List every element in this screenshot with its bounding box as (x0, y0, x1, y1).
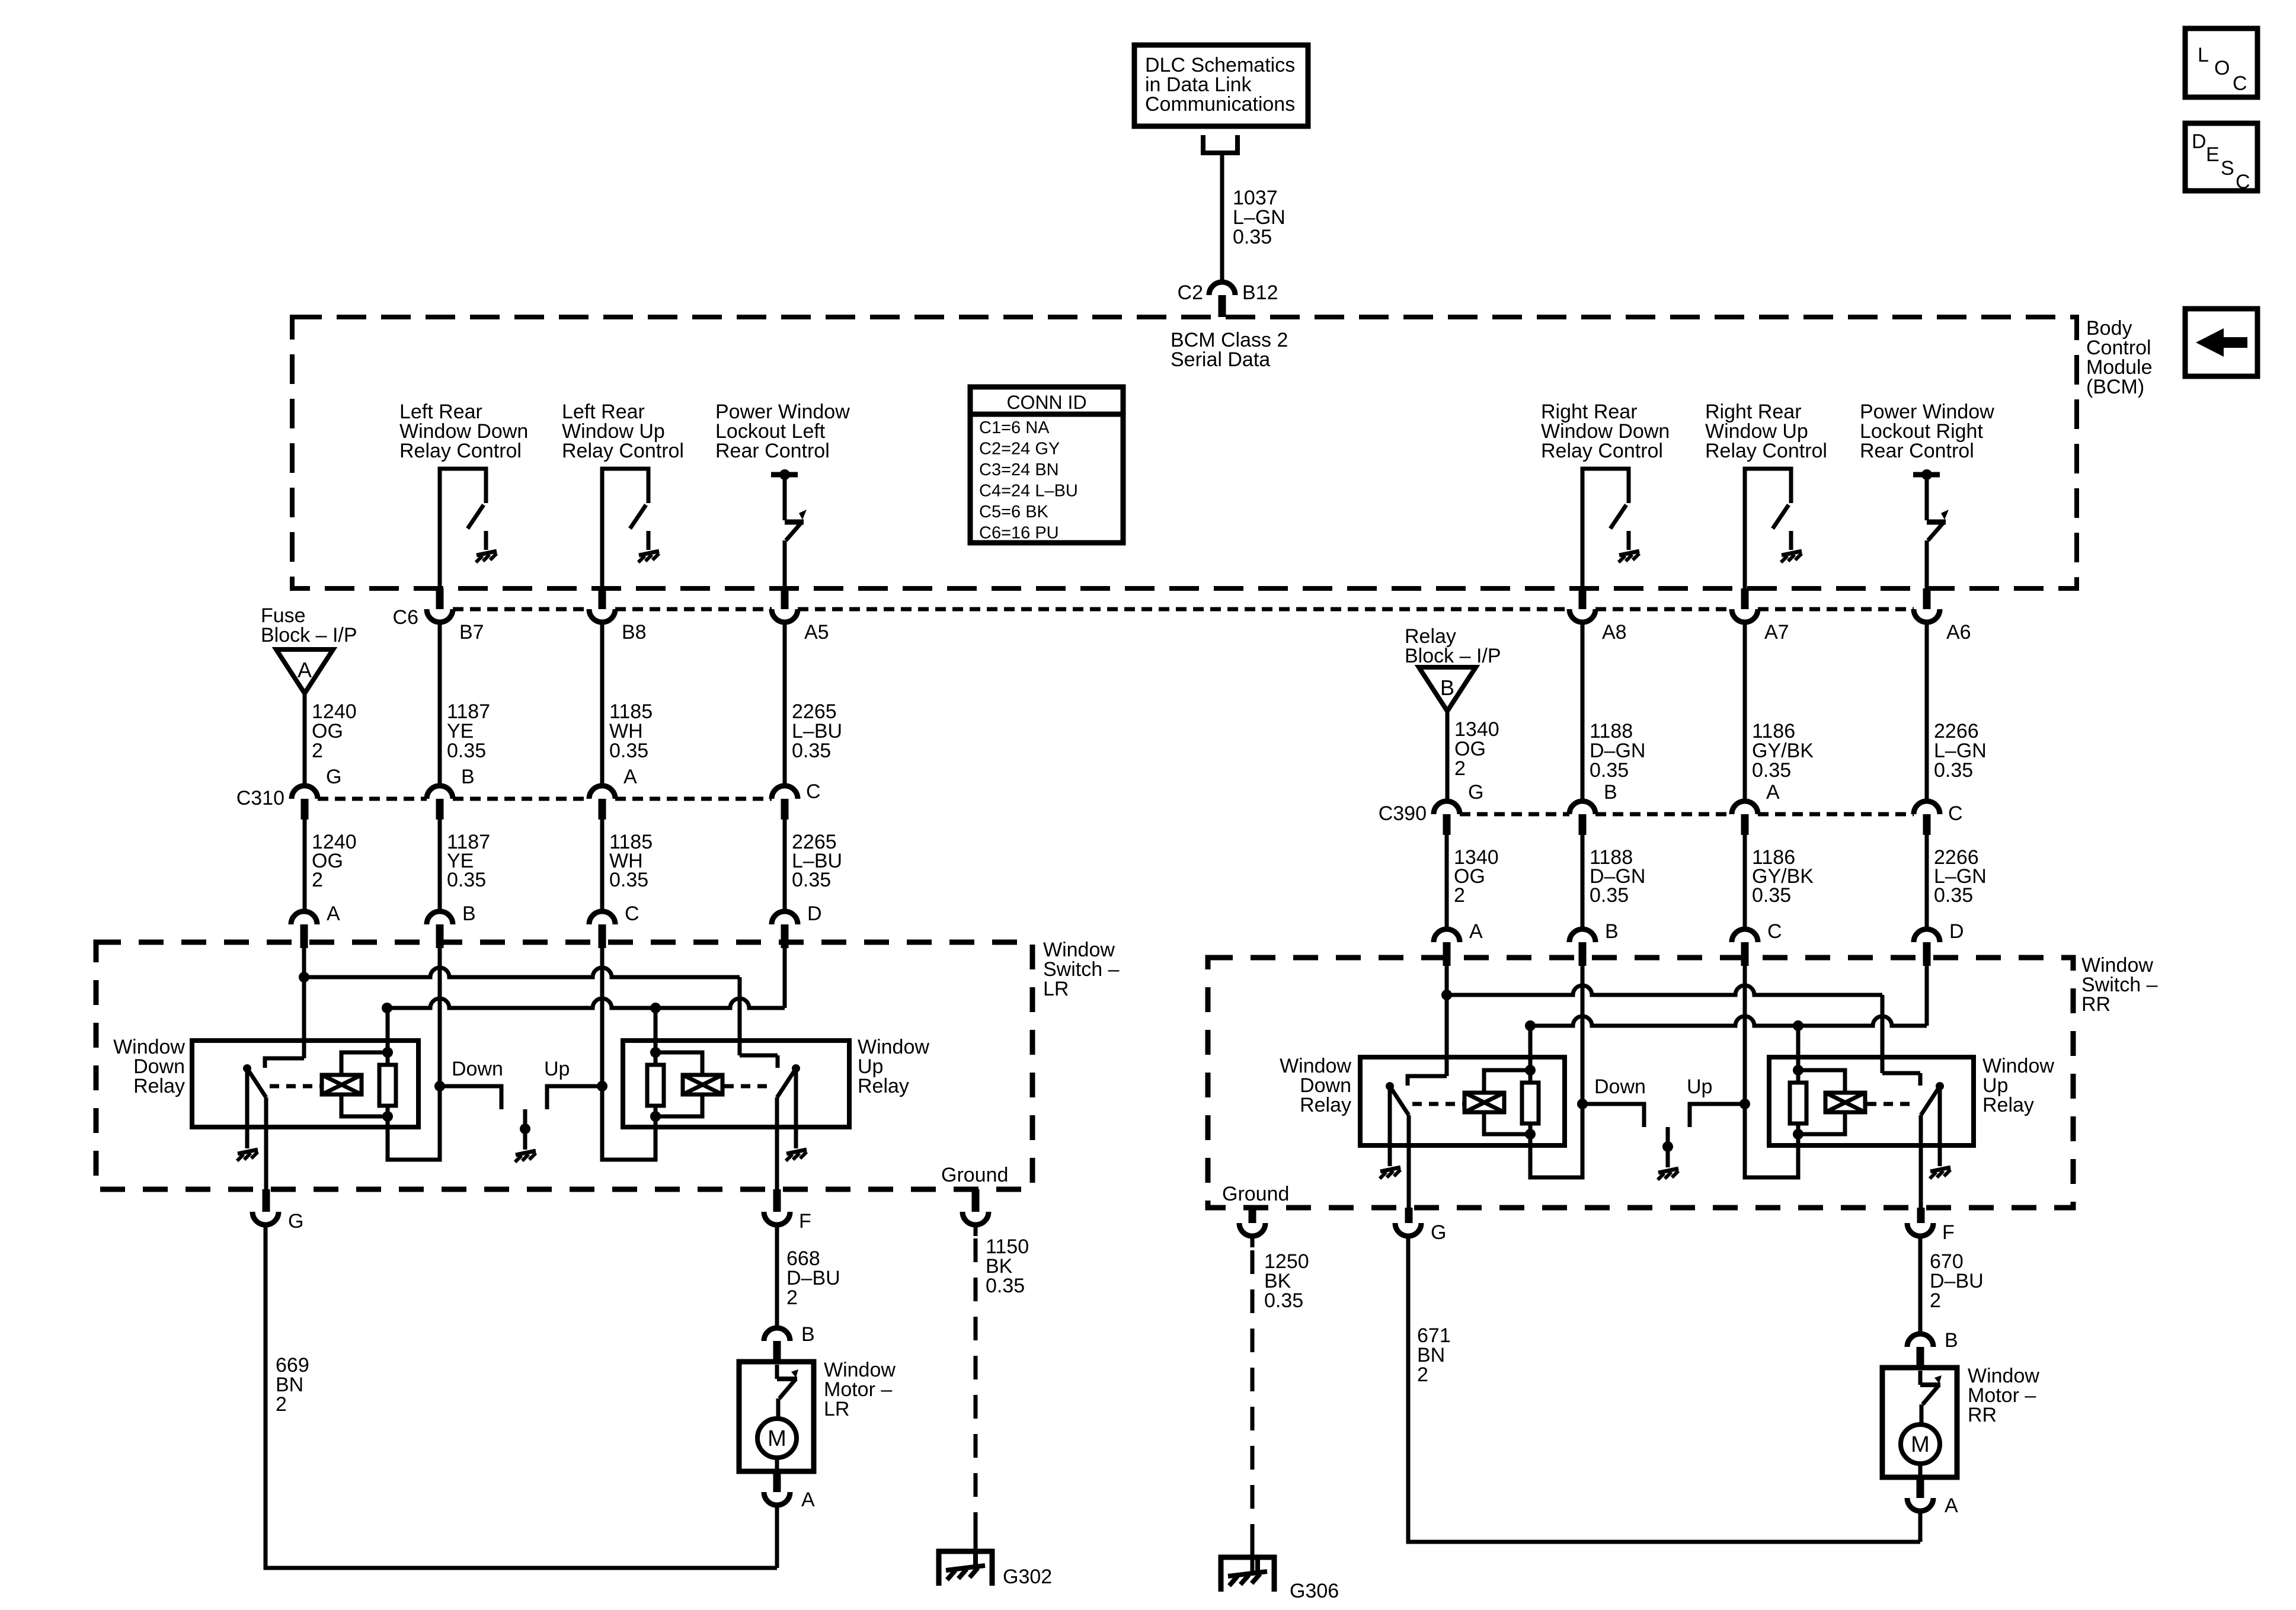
wire D column into LR switch (783, 948, 787, 1008)
svg-text:0.35: 0.35 (609, 740, 648, 762)
down relay coil return to B (RR) (1530, 1104, 1582, 1177)
svg-text:LR: LR (824, 1398, 849, 1420)
fuse block triangle A (276, 649, 333, 693)
Up switch contact (RR) (1690, 1104, 1745, 1127)
svg-text:Communications: Communications (1145, 93, 1295, 116)
svg-text:Up: Up (544, 1058, 570, 1080)
down relay output wire to G (RR) (1407, 1115, 1411, 1208)
connector G (LR) (263, 1189, 270, 1212)
bus from A to up-relay contact (LR) (299, 972, 309, 982)
wire 1240 OG (lower) (303, 820, 307, 911)
connector C at window switch LR (589, 911, 615, 924)
wire 668 D-BU from F to motor B (LR) (775, 1225, 779, 1328)
bus from A to up-relay contact (RR) (1441, 990, 1452, 1000)
svg-text:0.35: 0.35 (609, 869, 648, 891)
svg-text:Block – I/P: Block – I/P (261, 624, 357, 646)
svg-text:F: F (799, 1210, 811, 1233)
svg-text:0.35: 0.35 (1264, 1289, 1303, 1312)
connector C at window switch RR (1732, 929, 1758, 942)
wire 1186 GY/BK (lower) (1743, 835, 1747, 929)
up relay resistor (LR) (654, 1052, 658, 1065)
svg-text:F: F (1942, 1221, 1955, 1244)
svg-text:G: G (288, 1210, 303, 1233)
svg-text:C1=6 NA: C1=6 NA (979, 418, 1050, 437)
svg-text:B: B (1440, 676, 1454, 700)
connector C6 / B7 (436, 588, 444, 609)
driver switch right rear window up (A7) with ground (1745, 469, 1791, 588)
connector D at window switch RR (1914, 929, 1940, 942)
connector C2 / B12 (1209, 282, 1235, 295)
bus from D to relay coils (RR) (1525, 1020, 1536, 1031)
lockout driver right (A6) (1913, 472, 1940, 478)
up relay coil return to C (RR) (1745, 1104, 1798, 1177)
up relay resistor (RR) (1796, 1070, 1801, 1083)
connector C310 pin C (772, 786, 798, 799)
svg-text:A: A (1469, 920, 1483, 943)
svg-text:0.35: 0.35 (447, 740, 486, 762)
svg-text:G: G (1431, 1221, 1446, 1244)
svg-text:C: C (1948, 802, 1963, 825)
connector A8 (1579, 588, 1587, 609)
down relay resistor (RR) (1528, 1070, 1533, 1083)
svg-text:Block – I/P: Block – I/P (1405, 645, 1501, 667)
connector B at motor RR (1907, 1334, 1933, 1347)
down relay fixed contact from A (RR) (1408, 1076, 1447, 1086)
wire 1187 YE (upper) (438, 622, 442, 786)
svg-text:M: M (768, 1426, 786, 1451)
connector F (LR) (773, 1189, 781, 1212)
connector C310 pin A (589, 786, 615, 799)
svg-text:A: A (1766, 781, 1780, 804)
down relay coil (LR) (386, 1008, 390, 1052)
wire 1188 D-GN (upper) (1581, 622, 1585, 801)
svg-text:D: D (1949, 920, 1964, 943)
wire 1340 OG (lower) (1445, 835, 1449, 929)
ground at down relay (RR) (1380, 1167, 1400, 1172)
wire 669 BN from G to motor A (LR) (266, 1225, 777, 1568)
svg-text:C2=24 GY: C2=24 GY (979, 440, 1060, 459)
wire 1185 WH (upper) (600, 622, 605, 786)
Window Down Relay box (LR) (192, 1041, 418, 1127)
svg-text:A7: A7 (1764, 621, 1789, 644)
connector row dotted line (453, 607, 589, 612)
svg-text:C: C (806, 780, 821, 803)
svg-text:B: B (461, 766, 475, 788)
svg-text:C390: C390 (1379, 802, 1427, 825)
connector A5 (781, 588, 789, 609)
svg-text:Ground: Ground (941, 1164, 1008, 1186)
svg-text:Rear Control: Rear Control (715, 440, 830, 462)
wire D column into RR switch (1925, 966, 1929, 1026)
wire 1150 BK ground (LR) (974, 1225, 978, 1236)
lockout driver left (A5) (771, 472, 798, 478)
Window Motor - LR box (739, 1362, 814, 1471)
ground G306 (1219, 1555, 1277, 1560)
wire 1250 BK ground (RR) (1251, 1236, 1255, 1247)
svg-text:B: B (1945, 1329, 1958, 1352)
up relay linkage dashes (LR) (724, 1084, 773, 1089)
ground at down relay (LR) (238, 1150, 258, 1154)
bus from D to relay coils (LR) (382, 1003, 392, 1013)
ground at up relay (LR) (786, 1150, 807, 1154)
Window Switch - LR dashed box (96, 942, 1032, 1189)
svg-text:S: S (2221, 157, 2234, 180)
svg-text:Relay Control: Relay Control (399, 440, 522, 462)
up relay output wire to F (LR) (775, 1097, 779, 1189)
svg-text:2: 2 (312, 740, 323, 762)
svg-text:0.35: 0.35 (1752, 759, 1791, 782)
svg-text:Relay: Relay (858, 1075, 909, 1097)
Window Up Relay box (LR) (623, 1041, 849, 1127)
down relay output wire to G (LR) (264, 1097, 268, 1189)
svg-text:Rear Control: Rear Control (1860, 440, 1974, 462)
svg-text:C: C (2233, 72, 2247, 95)
svg-text:B12: B12 (1242, 281, 1278, 304)
connector C390 row dotted line (1460, 812, 1569, 817)
svg-text:C: C (625, 902, 639, 925)
wire 1037 L-GN from DLC to BCM (1220, 153, 1224, 282)
connector C310 row dotted line (318, 797, 427, 801)
svg-text:A5: A5 (804, 621, 829, 644)
svg-text:C310: C310 (236, 787, 284, 809)
connector C390 pin B (1569, 801, 1595, 814)
down relay blade (LR) (243, 1064, 251, 1073)
svg-text:0.35: 0.35 (792, 740, 831, 762)
svg-text:G302: G302 (1003, 1566, 1052, 1588)
svg-text:C5=6 BK: C5=6 BK (979, 502, 1049, 521)
svg-text:LR: LR (1043, 978, 1069, 1000)
connector C390 pin A (1732, 801, 1758, 814)
Window Up Relay box (RR) (1769, 1057, 1974, 1145)
svg-text:C2: C2 (1178, 281, 1203, 304)
up relay blade (LR) (792, 1064, 800, 1073)
svg-text:A: A (623, 766, 637, 788)
svg-text:0.35: 0.35 (792, 869, 831, 891)
svg-text:0.35: 0.35 (1590, 884, 1629, 907)
svg-text:0.35: 0.35 (447, 869, 486, 891)
svg-text:A: A (327, 902, 340, 925)
wire 2265 L-BU (lower) (783, 820, 787, 911)
Window Motor - RR box (1882, 1368, 1957, 1477)
svg-text:Relay Control: Relay Control (562, 440, 684, 462)
down relay fixed contact from A (LR) (265, 1058, 304, 1068)
svg-text:Relay: Relay (1300, 1094, 1351, 1116)
svg-text:C4=24 L–BU: C4=24 L–BU (979, 482, 1078, 501)
connector A6 (1923, 588, 1931, 609)
wire 1186 GY/BK (upper) (1743, 622, 1747, 801)
wire B column into LR switch (438, 948, 442, 1086)
svg-text:G: G (1468, 781, 1483, 804)
wire A column into LR switch (302, 948, 306, 1058)
wire C column into LR switch (600, 948, 605, 1086)
center rocker ground (LR) (523, 1109, 527, 1150)
wire 2266 L-GN (upper) (1925, 622, 1929, 801)
wire B column into RR switch (1581, 966, 1585, 1104)
arrow box with left arrow (2185, 309, 2257, 376)
svg-text:B: B (1605, 920, 1619, 943)
svg-text:A8: A8 (1602, 621, 1627, 644)
svg-text:0.35: 0.35 (1752, 884, 1791, 907)
svg-text:2: 2 (1930, 1289, 1941, 1312)
svg-text:Relay Control: Relay Control (1705, 440, 1827, 462)
svg-text:O: O (2214, 57, 2230, 79)
svg-text:E: E (2206, 143, 2220, 166)
up relay linkage dashes (RR) (1867, 1102, 1916, 1106)
svg-text:Ground: Ground (1222, 1183, 1289, 1205)
svg-text:Relay: Relay (133, 1075, 185, 1097)
wire A column into RR switch (1445, 966, 1449, 1076)
LOC box (2185, 28, 2257, 97)
up relay output wire to F (RR) (1919, 1115, 1923, 1208)
driver switch left rear window down (B7) with ground (440, 469, 486, 588)
connector B at window switch LR (427, 911, 453, 924)
svg-text:2: 2 (1454, 757, 1466, 780)
wire 1188 D-GN (lower) (1581, 835, 1585, 929)
svg-text:A: A (801, 1489, 815, 1511)
wire 2266 L-GN (lower) (1925, 835, 1929, 929)
motor M circle (RR) (1901, 1425, 1940, 1464)
wire 1340 OG from relay block (1446, 711, 1450, 801)
svg-text:B: B (1604, 781, 1617, 804)
Window Switch - RR dashed box (1208, 958, 2073, 1208)
svg-text:Serial Data: Serial Data (1171, 348, 1270, 371)
driver switch right rear window down (A8) with ground (1582, 469, 1629, 588)
svg-text:Relay Control: Relay Control (1541, 440, 1663, 462)
svg-text:B8: B8 (622, 621, 647, 644)
ground at up relay (RR) (1930, 1167, 1950, 1172)
svg-text:G306: G306 (1290, 1580, 1339, 1602)
svg-text:RR: RR (1968, 1404, 1997, 1426)
svg-text:RR: RR (2081, 993, 2110, 1016)
CONN ID table (970, 387, 1123, 543)
ground G302 (936, 1549, 994, 1554)
wire 2265 L-BU (upper) (783, 622, 787, 786)
connector A at window switch RR (1434, 929, 1460, 942)
svg-text:G: G (326, 766, 341, 788)
connector D at window switch LR (772, 911, 798, 924)
svg-text:B: B (462, 902, 476, 925)
svg-text:0.35: 0.35 (986, 1275, 1025, 1297)
svg-text:C: C (1767, 920, 1782, 943)
down relay resistor (LR) (386, 1052, 390, 1065)
Window Down Relay box (RR) (1360, 1057, 1565, 1145)
svg-text:(BCM): (BCM) (2086, 376, 2144, 398)
svg-text:2: 2 (1417, 1363, 1428, 1386)
svg-text:CONN ID: CONN ID (1006, 392, 1086, 413)
svg-text:2: 2 (276, 1393, 287, 1416)
svg-text:D: D (2192, 130, 2207, 153)
down relay linkage dashes (LR) (270, 1084, 320, 1089)
svg-text:Down: Down (1594, 1076, 1646, 1098)
Body Control Module (BCM) dashed box (292, 317, 2077, 588)
DLC Schematics box (1134, 45, 1308, 126)
svg-text:A: A (298, 658, 312, 682)
connector C310 pin B (427, 786, 453, 799)
down relay coil return to B (LR) (388, 1086, 440, 1160)
DESC box (2185, 123, 2257, 191)
connector C390 pin G (1434, 801, 1460, 814)
motor M circle (LR) (757, 1419, 797, 1458)
up relay coil return to C (LR) (602, 1086, 655, 1160)
connector C310 pin G (292, 786, 318, 799)
svg-text:D: D (807, 902, 822, 925)
svg-text:Down: Down (452, 1058, 503, 1080)
up relay blade (RR) (1936, 1082, 1944, 1090)
connector A at motor RR (1917, 1477, 1924, 1498)
wire C column into RR switch (1743, 966, 1747, 1104)
Up switch contact (LR) (547, 1086, 602, 1109)
down relay coil (RR) (1528, 1026, 1533, 1070)
svg-text:B: B (801, 1323, 815, 1346)
connector B8 (599, 588, 606, 609)
svg-text:0.35: 0.35 (1233, 226, 1272, 248)
motor internal switch (LR) (775, 1365, 779, 1379)
svg-text:2: 2 (312, 869, 323, 891)
svg-text:2: 2 (786, 1286, 798, 1309)
connector G (RR) (1405, 1208, 1413, 1223)
svg-text:C3=24 BN: C3=24 BN (979, 460, 1059, 479)
down relay linkage dashes (RR) (1412, 1102, 1463, 1106)
driver switch left rear window up (B8) with ground (602, 469, 648, 588)
svg-text:C: C (2236, 171, 2250, 193)
connector A7 (1741, 588, 1749, 609)
Down switch contact (LR) (440, 1086, 501, 1109)
svg-text:C6: C6 (393, 606, 418, 629)
svg-text:0.35: 0.35 (1934, 884, 1973, 907)
svg-text:0.35: 0.35 (1590, 759, 1629, 782)
wire 1187 YE (lower) (438, 820, 442, 911)
connector B at window switch RR (1569, 929, 1595, 942)
wire 670 D-BU from F to motor B (RR) (1918, 1236, 1923, 1334)
connector B at motor LR (764, 1328, 790, 1341)
up relay coil (LR) (654, 1008, 658, 1052)
connector A at motor LR (773, 1471, 781, 1492)
connector F (RR) (1917, 1208, 1925, 1223)
connector A at window switch LR (291, 911, 317, 924)
svg-text:B7: B7 (459, 621, 484, 644)
svg-text:0.35: 0.35 (1934, 759, 1973, 782)
svg-text:A: A (1945, 1494, 1958, 1517)
svg-text:Up: Up (1687, 1076, 1712, 1098)
center rocker ground (RR) (1666, 1127, 1670, 1167)
wire 671 BN from G to motor A (RR) (1408, 1236, 1920, 1542)
wire 1185 WH (lower) (600, 820, 605, 911)
svg-text:A6: A6 (1946, 621, 1971, 644)
wire 1240 OG from fuse block (303, 693, 307, 786)
svg-text:L: L (2198, 44, 2209, 66)
Down switch contact (RR) (1582, 1104, 1644, 1127)
svg-text:C6=16 PU: C6=16 PU (979, 524, 1059, 543)
up relay coil (RR) (1796, 1026, 1801, 1070)
connector C390 pin C (1914, 801, 1940, 814)
down relay blade (RR) (1386, 1082, 1394, 1090)
motor internal switch (RR) (1918, 1371, 1923, 1385)
DLC connector bracket (1203, 135, 1237, 153)
svg-text:2: 2 (1454, 884, 1465, 907)
svg-text:M: M (1911, 1432, 1930, 1457)
svg-text:Relay: Relay (1982, 1094, 2034, 1116)
